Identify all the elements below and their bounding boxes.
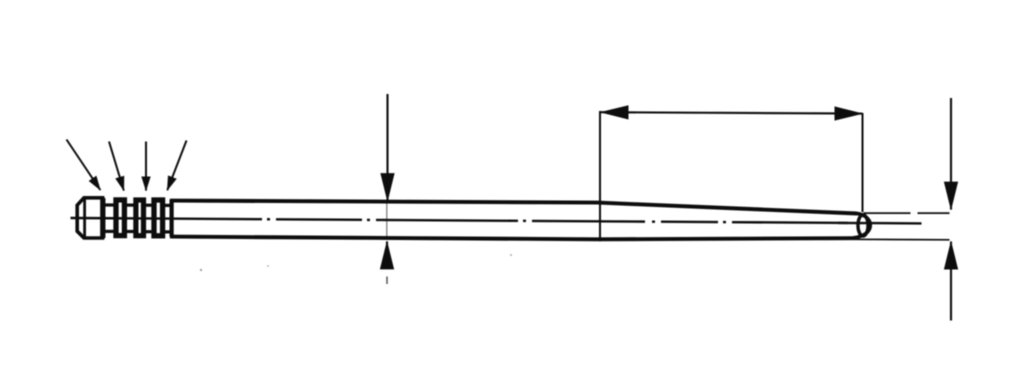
centerline solid segment through tip xyxy=(838,222,922,225)
scan speck xyxy=(267,265,269,267)
leader arrow 3 (groove 3) xyxy=(145,142,147,191)
shaft and taper top edge xyxy=(170,201,857,214)
lower arrow stub line xyxy=(386,277,388,285)
dimension line trace across shaft xyxy=(386,202,388,240)
flange ring 3 xyxy=(154,200,163,236)
needle head (chamfered block) xyxy=(77,198,102,238)
clip groove 2 edges xyxy=(127,204,135,207)
shaft diameter dimension, lower arrow xyxy=(386,242,388,270)
tip end-face ellipse xyxy=(858,215,868,236)
tip diameter dimension, lower arrow xyxy=(950,242,952,321)
shaft diameter dimension, upper arrow xyxy=(386,94,388,201)
taper length dimension line with arrowheads xyxy=(601,112,863,113)
leader arrow 4 (groove 4) xyxy=(167,141,186,191)
tip bottom extension line xyxy=(853,238,950,241)
clip groove 1 edges xyxy=(104,203,114,206)
shaft left end edge xyxy=(170,200,174,237)
flange ring 2 xyxy=(136,200,144,236)
leader arrow 1 (groove 1) xyxy=(67,140,101,191)
scan speck xyxy=(510,254,512,256)
taper length dimension, left extension line xyxy=(599,111,601,241)
head chamfer face line xyxy=(83,198,86,238)
taper length dimension, right extension line xyxy=(862,113,864,212)
clip groove 4 edges xyxy=(165,204,171,207)
flange ring 1 xyxy=(116,200,124,236)
clip groove 3 edges xyxy=(145,204,153,207)
shaft and taper bottom edge xyxy=(170,237,853,240)
tip diameter dimension, upper arrow xyxy=(950,98,952,210)
leader arrow 2 (groove 2) xyxy=(109,142,124,191)
head right edge (thick) xyxy=(100,198,105,238)
centerline of needle (chain line) xyxy=(71,218,849,223)
rounded tip cap xyxy=(853,213,871,238)
tip top extension line xyxy=(864,212,950,214)
scan speck xyxy=(200,269,202,271)
